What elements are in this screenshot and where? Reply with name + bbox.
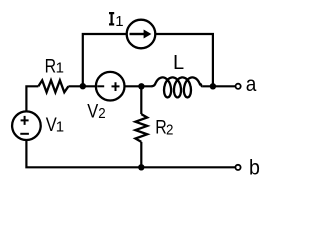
wire V2 to L [125, 85, 152, 87]
resistor R1 [38, 80, 68, 92]
junction node D (R2 bottom) [138, 164, 144, 170]
voltage source V2 [96, 72, 125, 101]
svg-text:1: 1 [56, 60, 64, 77]
wire R1 to V2 [68, 85, 96, 87]
V2 plus sign [112, 82, 120, 91]
resistor R2 [135, 114, 147, 142]
svg-text:R: R [45, 56, 57, 77]
wire node B to R2 [140, 86, 142, 114]
svg-text:1: 1 [115, 13, 123, 30]
svg-text:V: V [87, 101, 98, 122]
junction node A (R1 right) [80, 83, 86, 89]
wire R2 bottom lead [140, 142, 142, 167]
inductor L [151, 77, 202, 97]
V2 minus sign [97, 85, 104, 87]
label I1 letter I (serif glyph drawn) [109, 12, 114, 26]
svg-text:b: b [249, 156, 260, 180]
V1 plus sign [21, 116, 29, 125]
svg-text:1: 1 [56, 118, 64, 135]
svg-text:2: 2 [166, 121, 173, 138]
wire L to terminal a [202, 85, 235, 87]
wire V1 top lead to R1 [26, 86, 38, 111]
junction node C (right, at L) [210, 83, 216, 89]
V1 minus sign [20, 133, 29, 135]
wire node A up and top rail to I1 [83, 34, 127, 86]
wire I1 to node C [155, 34, 213, 86]
terminal a [236, 84, 241, 89]
svg-text:a: a [246, 72, 257, 96]
svg-text:L: L [173, 52, 184, 74]
junction node B (R2 top) [138, 83, 144, 89]
svg-text:2: 2 [98, 105, 105, 122]
current source I1 [127, 20, 156, 49]
voltage source V1 [12, 111, 41, 140]
terminal b [235, 165, 240, 170]
wire bottom rail [26, 140, 235, 167]
I1 arrow [130, 30, 152, 39]
